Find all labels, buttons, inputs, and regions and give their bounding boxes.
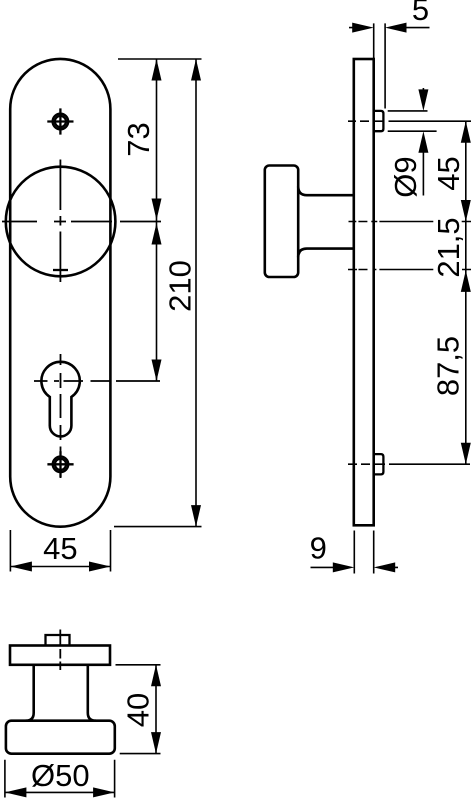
front view: knob vertical center line — [59, 160, 61, 283]
bottom view: center line — [59, 630, 61, 671]
svg-text:5: 5 — [412, 0, 429, 27]
front view: knob horizontal center line — [2, 221, 161, 223]
bottom view: spindle nub — [46, 635, 70, 646]
front view: plate outline — [10, 59, 110, 527]
dimension 73 line — [156, 59, 158, 381]
dimension 73 / chain: top extension line — [118, 58, 202, 60]
dimension 45 (plate width) — [10, 530, 110, 572]
dimension 5 (tab protrusion) — [349, 23, 430, 108]
svg-text:40: 40 — [121, 693, 156, 727]
svg-text:9: 9 — [310, 531, 327, 566]
svg-text:Ø9: Ø9 — [388, 156, 423, 197]
front view: top screw hole — [47, 108, 73, 134]
front view: bottom screw hole — [47, 451, 73, 477]
right dimension chain line — [465, 121, 467, 464]
dimension: bottom extension line — [114, 526, 202, 528]
side view: knob neck bottom profile — [298, 249, 354, 258]
front view: keyhole vertical center line — [60, 354, 62, 478]
front view: knob circle — [6, 167, 116, 277]
bottom view: neck right line — [88, 665, 96, 721]
svg-text:87,5: 87,5 — [431, 336, 466, 396]
dimension Ø50 (knob diameter) — [5, 760, 115, 798]
bottom view: flange — [10, 646, 110, 665]
svg-text:210: 210 — [163, 260, 198, 312]
front view: keyhole horizontal center line — [34, 380, 160, 382]
svg-text:45: 45 — [43, 531, 77, 566]
dimension 40 (knob height) — [116, 665, 161, 754]
dimension Ø9 (screw boss) — [388, 88, 437, 196]
side view: knob neck top profile — [298, 187, 354, 196]
front view: reference tick at y=270 — [53, 269, 68, 271]
front view: euro cylinder keyhole — [41, 362, 79, 437]
side view: center line y=464.2 — [348, 463, 470, 465]
bottom view: neck left line — [26, 665, 34, 721]
dimension 9 (plate thickness) — [311, 531, 399, 574]
side view: bottom screw boss tab — [374, 454, 384, 474]
bottom view: base disc — [6, 721, 115, 754]
side view: plate — [354, 59, 374, 525]
side view: top screw boss tab — [374, 111, 384, 131]
side view: center line y=221.5 — [349, 221, 471, 223]
side view: center line y=121.2 — [348, 120, 471, 122]
side view: center line y=269.5 — [348, 269, 471, 271]
dimension 210 line — [195, 59, 197, 527]
svg-text:21,5: 21,5 — [431, 217, 466, 277]
svg-text:Ø50: Ø50 — [31, 758, 90, 793]
svg-text:73: 73 — [121, 122, 156, 156]
side view: knob cap — [265, 166, 298, 278]
svg-text:45: 45 — [431, 156, 466, 190]
